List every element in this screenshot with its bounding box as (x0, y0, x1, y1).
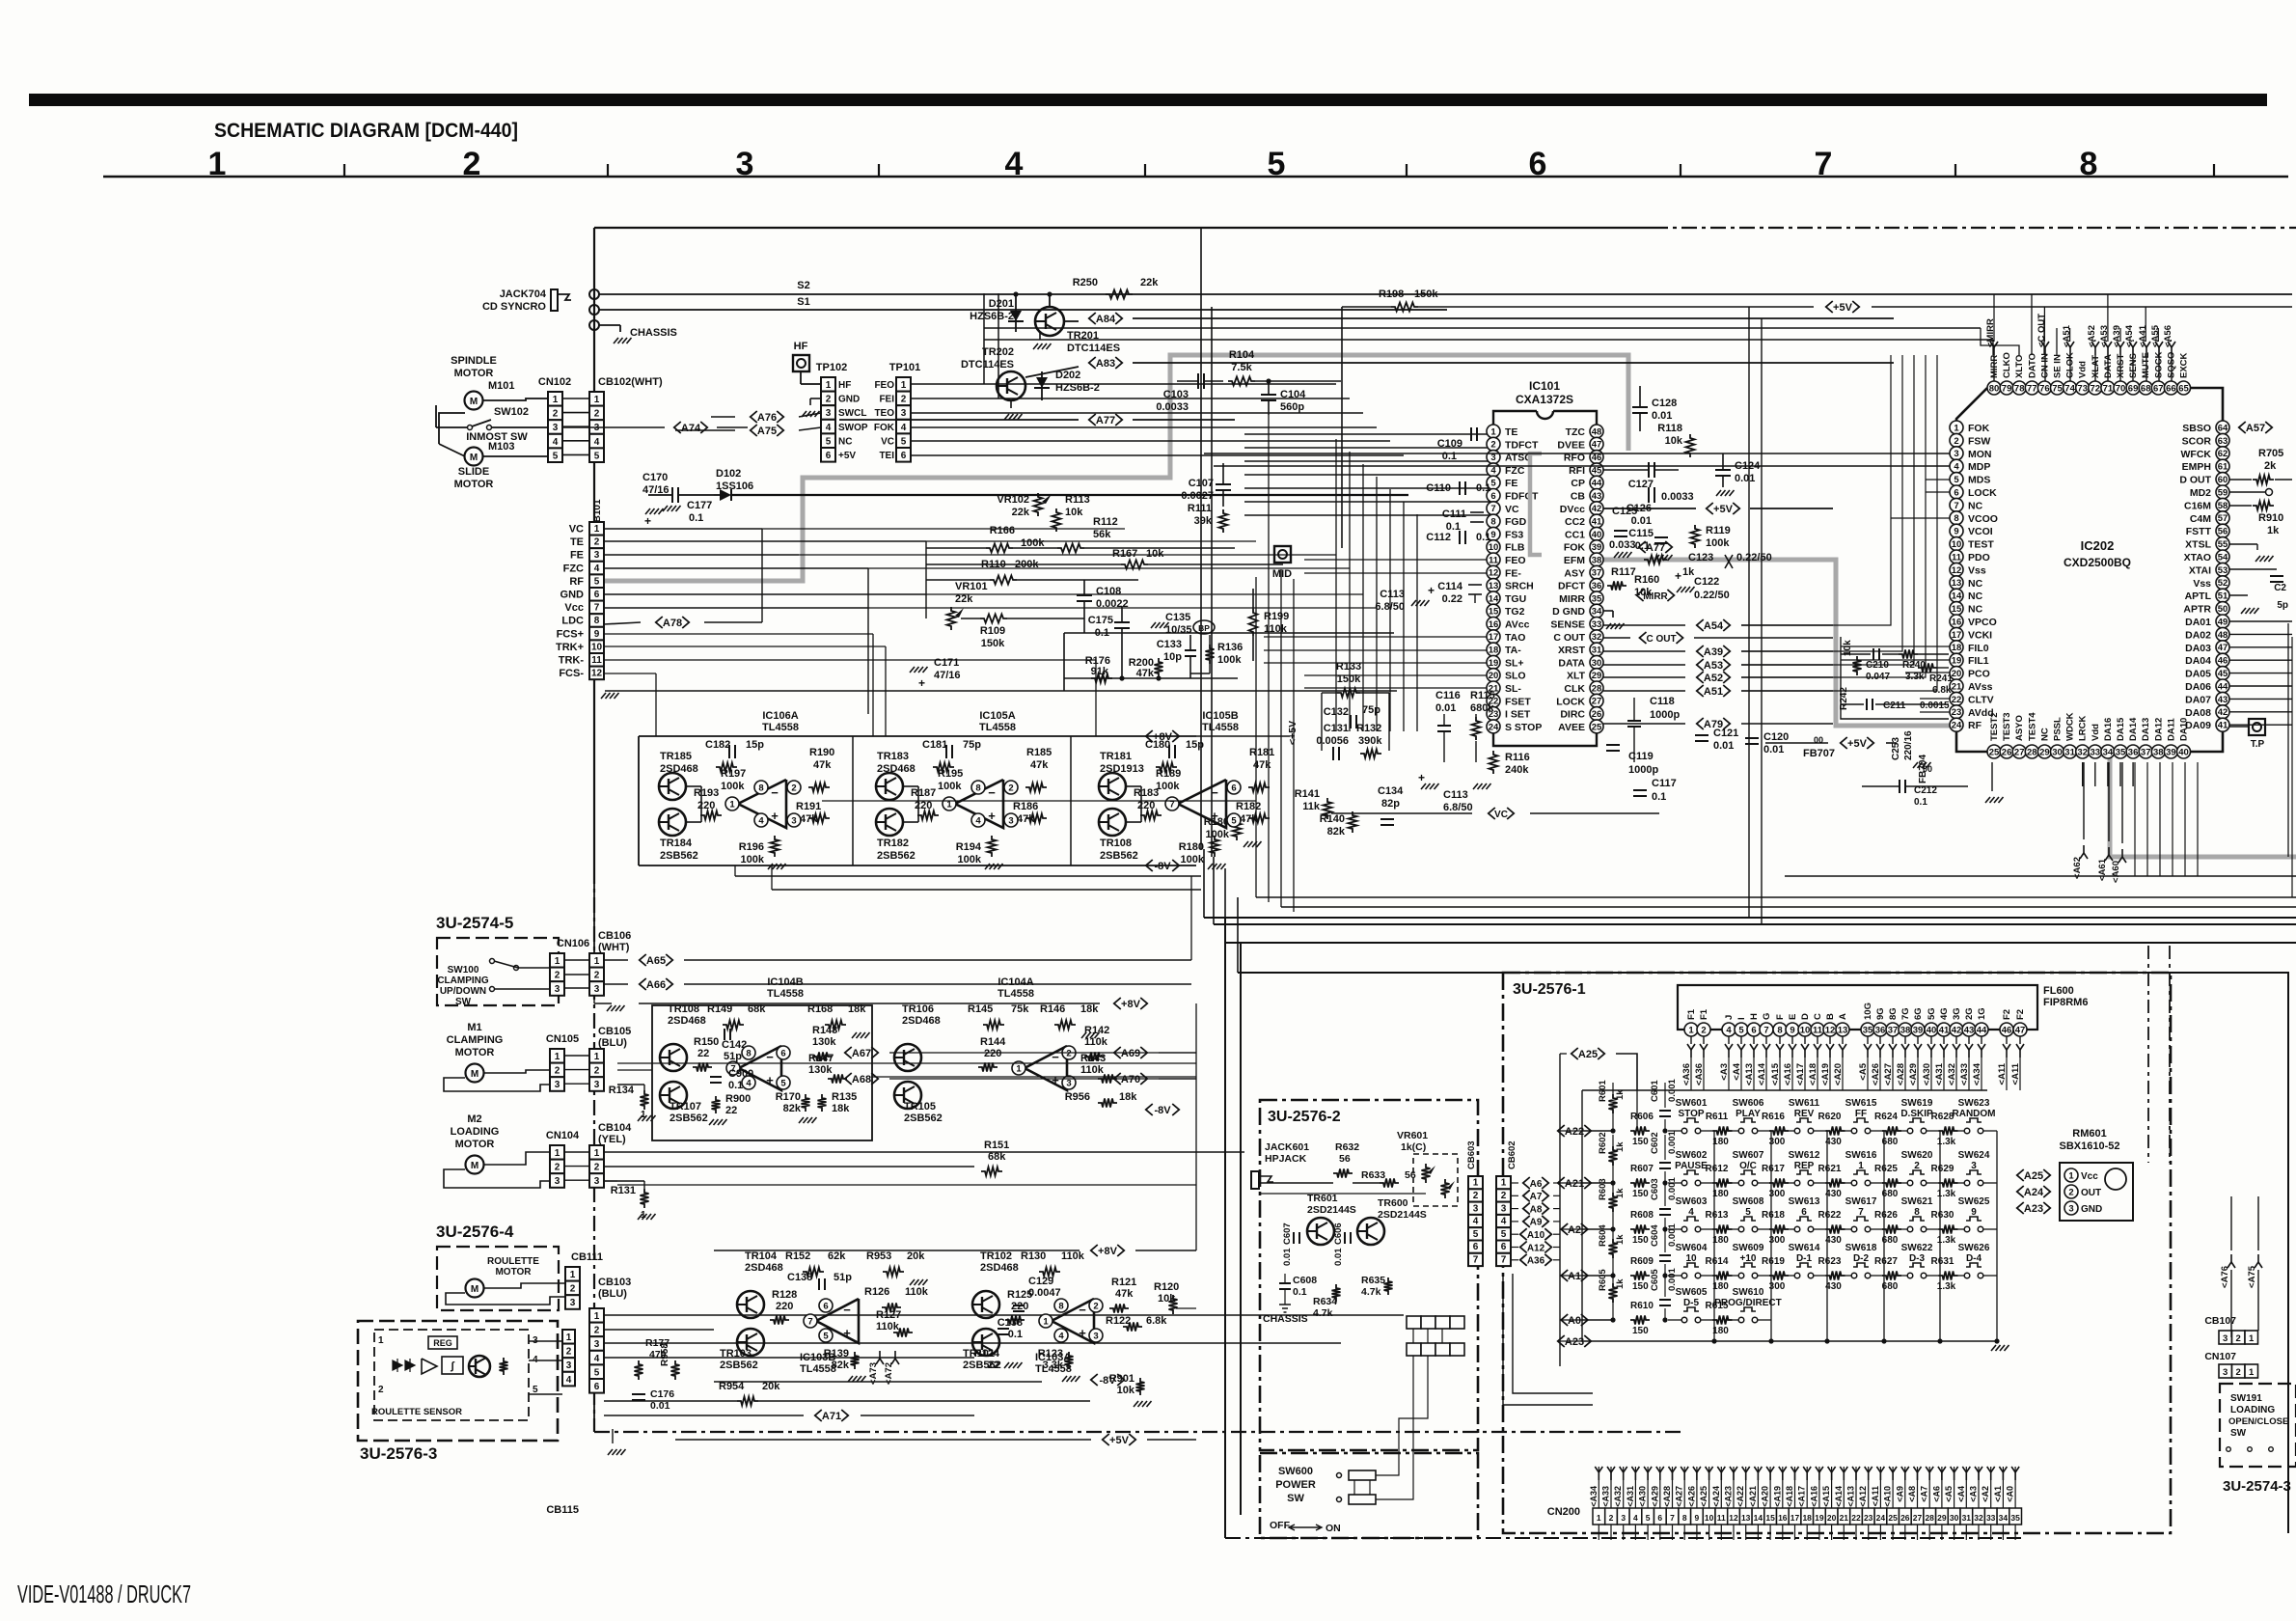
svg-text:22k: 22k (1140, 277, 1159, 288)
svg-text:59: 59 (2218, 487, 2228, 498)
svg-text:47k: 47k (1115, 1288, 1134, 1300)
svg-text:LOCK: LOCK (1968, 487, 1997, 499)
wire A69 A70 right (1159, 1052, 1196, 1054)
svg-text:-8V: -8V (1154, 1105, 1171, 1116)
svg-text:SE IN: SE IN (2053, 354, 2064, 378)
arrow A70 (1114, 1073, 1121, 1085)
svg-text:FIL0: FIL0 (1968, 643, 1989, 654)
svg-text:A53: A53 (1704, 660, 1723, 672)
svg-text:46: 46 (2002, 1025, 2012, 1035)
scale tick (1954, 164, 1956, 177)
svg-text:DIRC: DIRC (1560, 709, 1585, 721)
svg-text:31: 31 (1592, 646, 1602, 656)
ground TR202 (1010, 400, 1012, 408)
IC202 pin 3 MON (1950, 447, 1963, 460)
IC202 pin 14 NC (1950, 589, 1963, 602)
svg-text:1000p: 1000p (1628, 764, 1658, 776)
IC202 pin 70 XRST (2114, 381, 2127, 395)
wires IC202 left pins 8-9 17-24 stubs (1926, 479, 1950, 481)
wire A67 A68 to right (889, 1052, 1196, 1054)
svg-text:EFM: EFM (1564, 555, 1585, 566)
FL600 pin 38 7G (1899, 1023, 1912, 1036)
svg-text:79: 79 (2002, 383, 2012, 394)
svg-text:23: 23 (1864, 1513, 1873, 1523)
svg-text:1k(C): 1k(C) (1401, 1141, 1426, 1153)
svg-text:R619: R619 (1762, 1256, 1785, 1267)
svg-text:1: 1 (2249, 1333, 2255, 1344)
svg-text:R613: R613 (1706, 1210, 1729, 1221)
svg-text:−: − (771, 785, 779, 800)
IC202 pin 20 PCO (1950, 667, 1963, 680)
IC202 DA wires turn down (2291, 637, 2293, 897)
svg-text:2SB562: 2SB562 (660, 850, 698, 862)
svg-text:HF: HF (794, 341, 808, 352)
svg-text:A25: A25 (1578, 1049, 1598, 1060)
bus line A6x 4 (1238, 973, 2288, 1533)
svg-text:R956: R956 (1065, 1091, 1090, 1103)
IC101 pin 46 RFO (1590, 451, 1603, 464)
IC202 pin 39 DA11 (2164, 745, 2177, 758)
svg-text:A36: A36 (1527, 1256, 1545, 1267)
wires CB103 out (604, 1314, 1404, 1316)
svg-text:430: 430 (1825, 1189, 1842, 1199)
svg-text:SBX1610-52: SBX1610-52 (2060, 1140, 2120, 1152)
svg-text:23: 23 (1952, 707, 1962, 718)
svg-text:M: M (470, 397, 478, 407)
IC202 pin 53 XTAI (2216, 563, 2229, 576)
svg-text:FIL1: FIL1 (1968, 655, 1989, 667)
row3 rails (714, 1381, 1042, 1383)
IC101 pin 36 DFCT (1590, 579, 1603, 592)
svg-text:22: 22 (988, 1360, 999, 1371)
svg-text:R621: R621 (1818, 1164, 1842, 1174)
IC202 pin 51 APTL (2216, 589, 2229, 602)
svg-text:R149: R149 (707, 1003, 732, 1015)
ground under CB101 (593, 679, 595, 687)
svg-text:1: 1 (570, 1270, 576, 1280)
svg-text:75k: 75k (1011, 1003, 1029, 1015)
svg-text:22: 22 (697, 1048, 709, 1059)
FL600 pin 36 9G (1873, 1023, 1887, 1036)
wires op-amp row1 outputs right (822, 800, 1256, 802)
svg-text:6: 6 (823, 1301, 828, 1311)
svg-text:2SB562: 2SB562 (877, 850, 916, 862)
svg-text:28: 28 (1592, 683, 1602, 694)
svg-text:C175: C175 (1088, 615, 1113, 626)
svg-text:2: 2 (2236, 1333, 2241, 1344)
svg-text:1: 1 (901, 380, 907, 391)
svg-text:A65: A65 (646, 955, 666, 967)
wire CB102 down to CB101 (593, 462, 595, 522)
CN200 wire A7 (1928, 1467, 1930, 1508)
FL600 pin 2 F1 (1697, 1023, 1710, 1036)
CN200 wire A34 (1598, 1467, 1599, 1508)
CN200 wire A28 (1672, 1467, 1674, 1508)
svg-text:44: 44 (1592, 479, 1602, 489)
arrow A21 (1558, 1177, 1565, 1189)
arrow A69 (1114, 1047, 1121, 1058)
svg-text:DA08: DA08 (2185, 707, 2211, 719)
svg-text:+5V: +5V (1109, 1435, 1130, 1446)
transistor TR101 2SB562 (972, 1329, 999, 1356)
svg-text:SWOP: SWOP (838, 423, 868, 433)
svg-text:R910: R910 (2258, 512, 2283, 524)
svg-text:S STOP: S STOP (1505, 722, 1542, 733)
connector stubs row1 (1407, 1316, 1421, 1329)
svg-text:NC: NC (1968, 500, 1983, 511)
svg-text:CB105: CB105 (598, 1026, 631, 1037)
svg-text:OFF: OFF (1270, 1520, 1291, 1531)
svg-text:3: 3 (901, 408, 907, 419)
svg-text:R147: R147 (808, 1053, 834, 1064)
IC202 pin 11 PDO (1950, 550, 1963, 563)
svg-text:A: A (1838, 1013, 1848, 1020)
svg-text:<A14: <A14 (1834, 1486, 1844, 1507)
motor M1 (466, 1064, 484, 1083)
svg-text:3: 3 (570, 1298, 576, 1308)
svg-text:A6: A6 (1530, 1179, 1543, 1190)
CN200 wire A2 (1990, 1467, 1992, 1508)
svg-text:4: 4 (975, 815, 981, 826)
svg-text:100k: 100k (741, 854, 765, 865)
svg-text:3: 3 (2223, 1333, 2228, 1344)
motor M2 (466, 1156, 484, 1174)
svg-text:J: J (1724, 1015, 1735, 1020)
svg-text:9G: 9G (1875, 1007, 1886, 1020)
CN200 wire A30 (1647, 1467, 1649, 1508)
IC202 pin 73 Vdd (2076, 381, 2090, 395)
svg-text:21: 21 (1840, 1513, 1849, 1523)
svg-text:5p: 5p (2277, 600, 2288, 611)
svg-text:C16M: C16M (2184, 500, 2211, 511)
IC202 pin 64 SBSO (2216, 421, 2229, 434)
svg-text:VCOI: VCOI (1968, 526, 1993, 537)
svg-text:24: 24 (1489, 722, 1499, 732)
svg-text:5: 5 (901, 436, 907, 447)
bus line y703 (1064, 677, 1238, 679)
svg-text:SW617: SW617 (1845, 1196, 1877, 1207)
svg-text:FB704: FB704 (1918, 755, 1928, 783)
arrow A23 (1558, 1335, 1565, 1347)
svg-text:<A9: <A9 (1895, 1486, 1904, 1502)
IC202 pin 47 DA03 (2216, 641, 2229, 654)
svg-text:TR183: TR183 (877, 751, 909, 762)
resistor R116 240k (1490, 751, 1498, 774)
svg-text:<A31: <A31 (1626, 1486, 1635, 1507)
svg-text:1: 1 (378, 1335, 384, 1346)
svg-text:+8V: +8V (1153, 731, 1173, 743)
svg-text:TR107: TR107 (670, 1101, 701, 1113)
svg-text:AVcc: AVcc (1505, 619, 1530, 631)
svg-text:SW615: SW615 (1845, 1098, 1877, 1109)
svg-text:2: 2 (594, 1326, 600, 1336)
svg-text:SW100: SW100 (448, 965, 479, 975)
IC101 pin 10 FLB (1487, 540, 1500, 554)
svg-text:C603: C603 (1650, 1178, 1660, 1200)
svg-text:0.0027: 0.0027 (1181, 490, 1214, 502)
IC101 pin 24 S STOP (1487, 720, 1500, 733)
testpoint HF square (793, 355, 809, 371)
svg-text:DTC114ES: DTC114ES (961, 359, 1014, 371)
arrow A54 (1697, 619, 1704, 631)
svg-text:220: 220 (984, 1048, 1001, 1059)
+8V rail extension (1196, 735, 1290, 737)
box 3U-2576-3 (358, 1321, 558, 1441)
svg-text:3: 3 (555, 1080, 560, 1090)
svg-text:<A29: <A29 (1908, 1063, 1919, 1085)
svg-text:−: − (1079, 1303, 1086, 1317)
FL600 pin 8 F (1773, 1023, 1787, 1036)
svg-text:0.01: 0.01 (1333, 1248, 1344, 1266)
svg-text:6.8/50: 6.8/50 (1443, 802, 1473, 813)
right edge vertical (2287, 623, 2289, 857)
svg-text:3: 3 (566, 1360, 572, 1371)
bus line A6x 1 (1204, 917, 2296, 919)
svg-text:R134: R134 (609, 1085, 635, 1096)
svg-text:11: 11 (591, 655, 602, 666)
svg-text:<A10: <A10 (1883, 1486, 1893, 1507)
main board bottom border dash-dot (594, 1431, 1683, 1433)
IC101 pin 8 FGD (1487, 514, 1500, 528)
svg-text:<A22: <A22 (1736, 1486, 1745, 1507)
jack contact circles (589, 289, 599, 299)
svg-text:TAO: TAO (1505, 632, 1525, 644)
svg-text:TR182: TR182 (877, 838, 909, 849)
svg-text:T.P: T.P (2251, 739, 2265, 750)
svg-text:<A3: <A3 (1969, 1486, 1979, 1502)
svg-text:(BLU): (BLU) (598, 1037, 627, 1049)
svg-text:72: 72 (2091, 383, 2101, 394)
svg-text:R144: R144 (980, 1036, 1006, 1048)
svg-text:<A75: <A75 (2247, 1265, 2257, 1288)
sensor resistor (500, 1358, 508, 1375)
arrow A25 matrix top (1572, 1048, 1578, 1059)
svg-text:FGD: FGD (1505, 516, 1527, 528)
svg-text:C133: C133 (1157, 639, 1182, 650)
svg-text:DA03: DA03 (2185, 643, 2211, 654)
svg-text:<A15: <A15 (1770, 1062, 1781, 1085)
svg-text:27: 27 (1913, 1513, 1923, 1523)
svg-text:0.1: 0.1 (1914, 797, 1927, 808)
capacitor C104 560p (1261, 394, 1276, 396)
svg-text:6: 6 (901, 451, 907, 461)
svg-text:2: 2 (1609, 1513, 1614, 1523)
svg-text:3: 3 (1093, 1331, 1098, 1341)
svg-text:HZS6B-2: HZS6B-2 (970, 311, 1014, 322)
svg-text:DVcc: DVcc (1560, 504, 1585, 515)
svg-text:APTR: APTR (2183, 604, 2211, 616)
svg-text:R630: R630 (1931, 1210, 1954, 1221)
svg-text:3: 3 (594, 1176, 600, 1187)
svg-text:3U-2576-2: 3U-2576-2 (1268, 1109, 1341, 1125)
svg-text:<+5V: <+5V (1287, 721, 1298, 745)
svg-text:TA-: TA- (1505, 645, 1521, 656)
svg-text:38: 38 (1900, 1025, 1911, 1035)
svg-text:75: 75 (2052, 383, 2063, 394)
op-amp IC104B (739, 1046, 781, 1090)
svg-text:TL4558: TL4558 (979, 722, 1016, 733)
svg-text:48: 48 (1592, 426, 1602, 437)
ground APTL (2229, 594, 2248, 596)
svg-text:CN200: CN200 (1547, 1506, 1580, 1518)
svg-text:CLKO: CLKO (2002, 352, 2012, 378)
CN200 wire A26 (1696, 1467, 1698, 1508)
IC101 pin 42 DVcc (1590, 502, 1603, 515)
CN200 wire A0 (2014, 1467, 2016, 1508)
svg-text:WFCK: WFCK (2181, 449, 2212, 460)
svg-text:100k: 100k (938, 781, 962, 792)
svg-text:(BLU): (BLU) (598, 1288, 627, 1300)
svg-text:4: 4 (594, 437, 600, 448)
svg-text:0.1: 0.1 (1442, 451, 1457, 462)
vertical bus pair x1245 (1200, 228, 1202, 849)
svg-text:<A5: <A5 (1944, 1486, 1954, 1502)
IC202 pin 50 APTR (2216, 602, 2229, 616)
IC202 pin 17 VCKI (1950, 627, 1963, 641)
resistor R135 18k (818, 1094, 827, 1112)
svg-text:R122: R122 (1106, 1315, 1131, 1327)
svg-text:CLK: CLK (1564, 683, 1585, 695)
svg-text:100k: 100k (721, 781, 745, 792)
IC202 pin 15 NC (1950, 602, 1963, 616)
svg-text:R705: R705 (2258, 448, 2283, 459)
CN200 wire A3 (1978, 1467, 1980, 1508)
svg-text:SW604: SW604 (1676, 1243, 1708, 1253)
svg-text:C129: C129 (1028, 1276, 1053, 1287)
svg-text:<A33: <A33 (1959, 1063, 1970, 1085)
IC202 pin 30 PSSL (2051, 745, 2064, 758)
svg-text:37: 37 (2141, 747, 2151, 757)
svg-text:430: 430 (1825, 1137, 1842, 1147)
IC202 pin 9 VCOI (1950, 524, 1963, 537)
svg-text:2SD2144S: 2SD2144S (1307, 1204, 1356, 1216)
arrow A71 (815, 1410, 822, 1421)
svg-text:<A16: <A16 (1783, 1063, 1793, 1085)
IC101 pin 45 RFI (1590, 463, 1603, 477)
CN200 wire A25 (1708, 1467, 1710, 1508)
svg-text:VCKI: VCKI (1968, 629, 1992, 641)
svg-text:10: 10 (1705, 1513, 1714, 1523)
svg-text:R123: R123 (1038, 1348, 1063, 1360)
svg-text:43: 43 (1592, 491, 1602, 502)
svg-text:180: 180 (1712, 1281, 1729, 1292)
svg-text:33: 33 (1986, 1513, 1996, 1523)
svg-text:R604: R604 (1598, 1224, 1608, 1247)
svg-text:<A4: <A4 (1732, 1062, 1742, 1080)
svg-text:+: + (918, 676, 925, 690)
IC202 top feeders (1981, 328, 2019, 355)
arrow A52 (1697, 672, 1704, 683)
IC101 pin 26 DIRC (1590, 707, 1603, 721)
ground under IC202 bottom (1991, 762, 1993, 791)
svg-text:RF: RF (1968, 720, 1982, 731)
IC202 pin 43 DA07 (2216, 692, 2229, 705)
svg-text:100k: 100k (1217, 654, 1242, 666)
svg-text:430: 430 (1825, 1235, 1842, 1246)
svg-text:68k: 68k (988, 1151, 1006, 1163)
svg-text:R627: R627 (1874, 1256, 1898, 1267)
svg-text:<A32: <A32 (1947, 1063, 1957, 1085)
wire CB602 to CN200 trunk (1513, 1274, 1593, 1393)
bus A23 bottom (1582, 1340, 1998, 1342)
svg-text:1: 1 (555, 1148, 560, 1159)
svg-text:RF: RF (569, 576, 584, 588)
svg-text:5G: 5G (1927, 1007, 1937, 1020)
svg-text:R139: R139 (824, 1348, 849, 1360)
svg-text:22: 22 (725, 1105, 737, 1116)
svg-text:G: G (1762, 1013, 1772, 1020)
testpoint TP square (2249, 719, 2265, 735)
svg-text:26: 26 (1592, 709, 1602, 720)
svg-text:7: 7 (807, 1316, 812, 1327)
svg-text:R151: R151 (984, 1140, 1009, 1151)
svg-text:C121: C121 (1713, 728, 1738, 739)
svg-text:<A4: <A4 (1956, 1486, 1966, 1502)
svg-text:<A61: <A61 (2097, 858, 2108, 881)
dash verticals right of matrix (2147, 946, 2149, 1163)
svg-text:4G: 4G (1939, 1007, 1950, 1020)
svg-text:0.01: 0.01 (1652, 410, 1672, 422)
svg-text:430: 430 (1825, 1281, 1842, 1292)
wire A78 arrow (656, 617, 663, 628)
svg-text:20: 20 (1952, 669, 1962, 679)
svg-text:M: M (471, 1161, 478, 1171)
svg-text:6: 6 (1954, 487, 1958, 498)
IC202 pin 7 NC (1950, 498, 1963, 511)
svg-text:1: 1 (2068, 1170, 2074, 1181)
svg-text:10k: 10k (1117, 1385, 1135, 1396)
svg-text:A21: A21 (1565, 1178, 1584, 1190)
IC101 pin 43 CB (1590, 489, 1603, 503)
svg-text:2: 2 (594, 537, 600, 548)
CN200 wire A31 (1634, 1467, 1636, 1508)
svg-text:<A31: <A31 (1934, 1062, 1945, 1085)
svg-text:41: 41 (1592, 517, 1602, 528)
IC101 pin 25 AVEE (1590, 720, 1603, 733)
svg-text:0.01: 0.01 (1435, 702, 1456, 714)
svg-text:69: 69 (2128, 383, 2139, 394)
svg-text:R128: R128 (772, 1289, 797, 1301)
IC202 pin 5 MDS (1950, 473, 1963, 486)
svg-text:<A76: <A76 (2220, 1266, 2230, 1288)
IC202 pin 32 LRCK (2076, 745, 2090, 758)
svg-text:5: 5 (1501, 1229, 1507, 1240)
svg-text:C118: C118 (1650, 696, 1675, 707)
svg-text:A22: A22 (1565, 1126, 1584, 1138)
svg-text:6.8/50: 6.8/50 (1375, 601, 1405, 613)
svg-text:3: 3 (1008, 815, 1013, 826)
svg-text:A51: A51 (1704, 686, 1723, 698)
svg-text:APTL: APTL (2185, 591, 2212, 602)
svg-text:C602: C602 (1650, 1132, 1660, 1154)
svg-text:5: 5 (594, 451, 600, 461)
motor roulette (466, 1279, 484, 1298)
transistor TR103 2SB562 (737, 1329, 764, 1356)
arrow A1 (1561, 1270, 1568, 1281)
svg-text:<A30: <A30 (1638, 1486, 1648, 1507)
svg-text:SW609: SW609 (1733, 1243, 1764, 1253)
svg-text:7: 7 (1670, 1513, 1675, 1523)
svg-text:SW618: SW618 (1845, 1243, 1877, 1253)
svg-text:C125: C125 (1612, 506, 1637, 517)
svg-text:3: 3 (1954, 449, 1958, 459)
svg-text:1: 1 (1043, 1316, 1049, 1327)
svg-text:24: 24 (1952, 721, 1962, 731)
svg-text:1: 1 (1597, 1513, 1601, 1523)
IC202 pin 37 DA13 (2139, 745, 2152, 758)
svg-text:B: B (1825, 1013, 1836, 1020)
arrow A2 (1561, 1223, 1568, 1235)
